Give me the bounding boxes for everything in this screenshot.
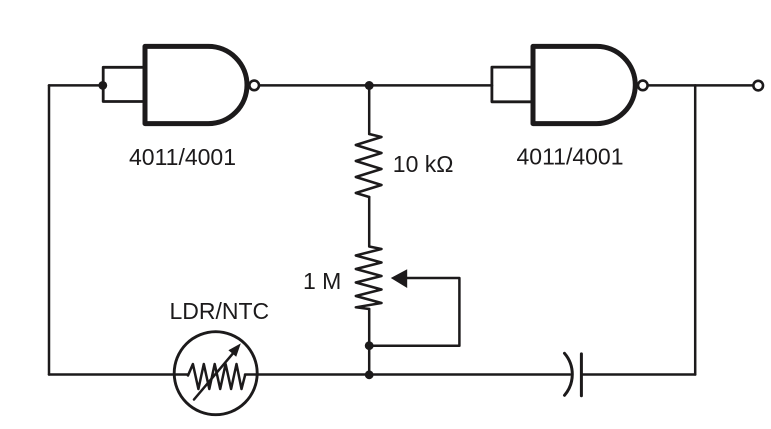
- svg-text:4011/4001: 4011/4001: [129, 144, 236, 170]
- capacitor C1 straight plate: [580, 354, 583, 396]
- svg-text:10 kΩ: 10 kΩ: [393, 151, 454, 177]
- svg-text:4011/4001: 4011/4001: [517, 144, 624, 170]
- wire: U1 output to U2 input: [259, 84, 492, 87]
- wire: U2 output to terminal: [648, 84, 752, 87]
- NAND gate U2 body: [533, 46, 635, 123]
- svg-text:1 M: 1 M: [303, 268, 341, 294]
- capacitor C1 curved plate: [565, 353, 573, 395]
- potentiometer R2 1M zigzag: [356, 247, 382, 310]
- wire: bottom rail from LDR to capacitor: [245, 373, 570, 376]
- resistor R1 10 kOhm zigzag: [356, 134, 382, 197]
- LDR zigzag resistor element: [188, 364, 245, 389]
- wire: bottom rail left segment to LDR: [49, 373, 188, 376]
- wire: potentiometer bottom to bottom rail: [368, 309, 371, 375]
- potentiometer wiper arrowhead: [391, 269, 407, 288]
- NAND gate U1 body: [145, 46, 247, 123]
- node: bottom rail junction dot: [365, 370, 374, 379]
- node: wiper junction dot: [365, 341, 374, 350]
- U1 output inversion bubble: [249, 81, 259, 91]
- node: gate U1 input junction dot: [98, 81, 107, 90]
- wire: top-left input stub: [49, 84, 103, 87]
- input tie rectangle of U1: [103, 67, 145, 101]
- wire: right rail vertical: [694, 85, 697, 374]
- wire: R1 bottom to potentiometer top: [368, 197, 371, 246]
- node: junction dot at top of resistor chain: [365, 81, 374, 90]
- U2 output inversion bubble: [638, 81, 648, 91]
- LDR/NTC circle outline: [174, 332, 257, 415]
- input tie rectangle of U2: [492, 67, 533, 102]
- LDR arrowhead: [228, 343, 240, 356]
- wire: wiper loop: [369, 278, 459, 346]
- svg-text:LDR/NTC: LDR/NTC: [170, 298, 270, 324]
- LDR arrow shaft: [194, 354, 233, 400]
- wire: left rail vertical: [48, 85, 51, 374]
- wire: capacitor to right rail: [581, 373, 695, 376]
- output terminal open circle: [753, 81, 763, 91]
- wire: junction down to R1: [368, 86, 371, 135]
